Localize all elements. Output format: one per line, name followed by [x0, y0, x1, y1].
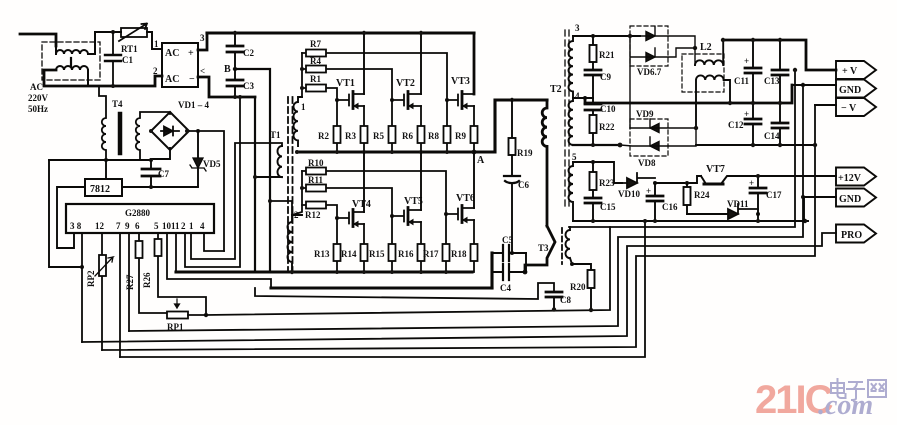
svg-text:R6: R6	[402, 131, 413, 141]
potentiometer RP1	[167, 299, 188, 332]
node VT3 gate	[445, 98, 449, 102]
mosfet VT4	[337, 199, 371, 227]
node B	[233, 67, 237, 71]
capacitor C7	[142, 160, 169, 186]
resistor R24	[684, 183, 710, 214]
svg-text:PRO: PRO	[841, 230, 862, 241]
rail pin9 long	[129, 85, 803, 331]
svg-text:4: 4	[575, 91, 580, 101]
svg-text:+: +	[188, 48, 194, 59]
svg-text:VT7: VT7	[706, 164, 725, 175]
wire pin12 down	[101, 233, 103, 350]
label pin4	[200, 66, 205, 76]
transformer T2 core dashed	[565, 30, 569, 208]
svg-text:R21: R21	[599, 50, 615, 60]
svg-text:6: 6	[135, 221, 140, 231]
svg-text:5: 5	[154, 221, 159, 231]
label T2 pin4	[575, 91, 580, 101]
mosfet VT5	[392, 196, 423, 225]
label T2 pin3	[575, 23, 580, 33]
rail +12 bottom	[573, 220, 808, 222]
svg-text:C4: C4	[500, 283, 511, 293]
node VD6 VD7 out	[693, 46, 697, 50]
diode VD10	[618, 173, 655, 199]
thermistor RT1	[119, 24, 147, 55]
svg-text:VT3: VT3	[451, 76, 470, 87]
svg-text:VD10: VD10	[618, 189, 640, 199]
svg-text:9: 9	[125, 221, 130, 231]
capacitor C17	[749, 176, 782, 221]
svg-text:AC: AC	[165, 48, 179, 59]
potentiometer RP2	[86, 255, 113, 287]
wire top line to RT1	[95, 31, 121, 33]
top bus B+	[207, 31, 474, 34]
output arrow -V	[836, 98, 876, 116]
svg-text:VD5: VD5	[203, 159, 221, 169]
svg-text:3 8: 3 8	[70, 221, 82, 231]
svg-text:R16: R16	[398, 249, 414, 259]
resistor R15	[369, 216, 396, 272]
nodes lower bus resistor feet	[335, 270, 448, 274]
mosfet VT1	[336, 78, 364, 109]
svg-text:R15: R15	[369, 249, 385, 259]
svg-text:R14: R14	[341, 249, 357, 259]
T4 primary winding	[99, 87, 106, 160]
svg-text:7812: 7812	[90, 184, 110, 195]
output arrow +V	[836, 61, 876, 79]
label A	[477, 155, 485, 166]
L2 winding bottom	[696, 75, 730, 128]
svg-text:GND: GND	[839, 194, 861, 205]
node R23 top	[591, 160, 595, 164]
transformer T3 secondary	[566, 227, 573, 264]
rail pin12 long	[102, 105, 815, 350]
node VT2 gate	[390, 98, 394, 102]
resistor R22	[590, 115, 615, 145]
nodes +12 bottom rail	[591, 219, 807, 223]
svg-text:2: 2	[181, 221, 186, 231]
svg-text:VT1: VT1	[336, 78, 355, 89]
svg-text:1: 1	[154, 39, 159, 49]
svg-text:C2: C2	[243, 48, 254, 58]
svg-text:C14: C14	[764, 131, 780, 141]
svg-text:VT4: VT4	[352, 199, 371, 210]
label AC 220V 50Hz	[28, 82, 49, 114]
resistor R19	[509, 100, 533, 176]
node VD9 out	[694, 126, 698, 130]
capacitor C2	[227, 33, 254, 69]
node GND sense	[801, 83, 805, 87]
resistor R13	[314, 218, 341, 272]
svg-text:R8: R8	[428, 131, 439, 141]
resistor R4	[302, 56, 392, 100]
transformer T1 core dashed	[288, 97, 293, 270]
svg-text:VD1 – 4: VD1 – 4	[178, 100, 209, 110]
wire rectifier pin4 to ground run	[198, 77, 255, 97]
resistor R8	[428, 100, 451, 152]
label VD8	[638, 158, 656, 168]
svg-text:<: <	[200, 66, 205, 76]
wire GND arrow lead	[792, 84, 836, 86]
wire pin9 down	[128, 233, 130, 331]
T2 winding pin4	[569, 98, 574, 145]
node RP1 right	[204, 313, 208, 317]
watermark 21IC	[755, 378, 873, 422]
node drive bottom riser	[253, 175, 257, 179]
resistor R2	[318, 100, 341, 152]
svg-text:+: +	[744, 56, 749, 66]
svg-text:+: +	[744, 109, 749, 119]
svg-text:R3: R3	[345, 131, 356, 141]
diode VD8	[620, 128, 696, 151]
svg-text:C1: C1	[122, 55, 133, 65]
rail C8 sense	[255, 283, 554, 299]
svg-text:A: A	[477, 155, 485, 166]
label pin2	[153, 66, 158, 76]
wire pin8 down	[81, 233, 83, 342]
capacitor C12	[728, 103, 761, 145]
svg-text:C6: C6	[518, 180, 529, 190]
svg-text:VD8: VD8	[638, 158, 656, 168]
bus lower mosfet rail thick	[271, 286, 492, 289]
output arrow GND	[836, 80, 876, 98]
svg-text:R2: R2	[318, 131, 329, 141]
label pin1	[154, 39, 159, 49]
node pin3 rail VD column	[628, 34, 632, 38]
node center tap	[583, 96, 587, 100]
svg-text:VD11: VD11	[727, 199, 749, 209]
node R22 bottom	[591, 143, 595, 147]
mosfet VT6	[446, 193, 475, 223]
transformer T1 label	[270, 130, 281, 140]
svg-text:+ V: + V	[842, 66, 858, 77]
svg-text:AC: AC	[30, 82, 43, 92]
svg-text:R19: R19	[517, 148, 533, 158]
rail minusV right	[696, 144, 815, 146]
node C6 bottom on C5 lead	[510, 251, 514, 255]
diode VD7	[630, 36, 695, 128]
resistor R9	[455, 106, 478, 152]
regulator 7812	[85, 179, 122, 196]
capacitor C16	[646, 183, 678, 221]
wire pin4 U-loop	[204, 233, 224, 251]
node VT5 gate	[390, 214, 394, 218]
wire bridge bottom to C7 node	[151, 148, 170, 159]
L2 winding top	[695, 40, 723, 65]
wire rectifier pin3 to top bus	[198, 33, 207, 50]
svg-text:VT6: VT6	[456, 193, 475, 204]
transformer T3 core dashed	[561, 228, 563, 264]
transformer T3 primary angle	[525, 226, 555, 272]
wire RT1 to rectifier pin1	[147, 32, 162, 49]
bus A thick	[297, 150, 474, 153]
resistor R12	[302, 202, 337, 221]
resistor R23	[590, 162, 615, 198]
svg-text:C7: C7	[158, 169, 169, 179]
mosfet VT3	[447, 76, 474, 109]
svg-text:R9: R9	[455, 131, 466, 141]
svg-text:GND: GND	[839, 85, 861, 96]
node pin2 riser top	[238, 95, 242, 99]
wire diodes to L2	[694, 48, 696, 65]
wire bus A to T2 primary	[474, 100, 547, 152]
rail GND mid	[585, 85, 792, 103]
svg-text:B: B	[224, 64, 231, 75]
wire bridge right to +12 unreg	[189, 131, 224, 251]
node VT1 gate	[335, 98, 339, 102]
node B riser tap	[268, 199, 272, 203]
nodes GND rail caps	[728, 101, 782, 147]
svg-text:220V: 220V	[28, 93, 49, 103]
transformer T4	[99, 87, 170, 160]
svg-text:R26: R26	[142, 272, 152, 288]
inductor L2 dashed box	[682, 54, 724, 92]
wire AC neutral input bottom	[44, 70, 162, 86]
wire 7812 input from rail	[105, 160, 107, 179]
node C8 bottom	[552, 307, 556, 311]
capacitor C11	[734, 40, 761, 103]
label T1 pin2	[294, 210, 299, 220]
node VD5 top	[196, 129, 200, 133]
node R24 top	[685, 181, 689, 185]
svg-text:+: +	[646, 186, 651, 196]
capacitor C15	[585, 198, 616, 221]
svg-text:C17: C17	[766, 190, 782, 200]
svg-text:R7: R7	[310, 39, 321, 49]
T4 secondary winding	[136, 112, 170, 160]
node R1 rail	[300, 86, 304, 90]
capacitor C8	[546, 292, 571, 310]
output arrow GND12	[836, 189, 876, 207]
transformer T2 label	[550, 84, 562, 95]
wire VD11 row	[687, 213, 727, 215]
gate ladder left rail top bank	[301, 53, 303, 97]
node C3 bottom	[233, 95, 237, 99]
rail RP1 sense long	[206, 70, 795, 315]
node C7 bottom	[149, 185, 153, 189]
T2 winding pin3	[569, 36, 574, 98]
svg-text:5: 5	[572, 152, 577, 162]
node A	[472, 150, 477, 155]
svg-text:VD6.7: VD6.7	[637, 67, 662, 77]
capacitor C3	[227, 69, 254, 97]
node R11 rail	[300, 186, 304, 190]
wire VT1 drain up	[363, 33, 365, 94]
svg-text:R11: R11	[308, 175, 324, 185]
svg-text:T4: T4	[112, 99, 123, 109]
svg-text:11: 11	[171, 221, 180, 231]
node +V sense	[793, 68, 797, 72]
node R20 bottom	[589, 308, 593, 312]
rectifier module U-AC box	[162, 43, 198, 87]
rail C7 bottom to regulator	[122, 186, 198, 188]
wire VT6 drain up	[473, 152, 475, 208]
svg-text:C16: C16	[662, 202, 678, 212]
svg-text:4: 4	[200, 221, 205, 231]
wire AC line input top	[20, 34, 56, 46]
svg-text:T2: T2	[550, 84, 562, 95]
resistor R21	[590, 36, 615, 70]
top bus caps	[723, 40, 836, 70]
node C1 bottom	[111, 84, 115, 88]
mosfet VT2	[392, 78, 421, 109]
wire pin4 drop to bus	[254, 97, 256, 272]
svg-text:C9: C9	[600, 72, 611, 82]
node VT2 drain bus	[419, 31, 423, 35]
svg-text:3: 3	[575, 23, 580, 33]
svg-text:1: 1	[189, 221, 194, 231]
resistor R17	[423, 214, 450, 272]
resistor R7	[302, 39, 447, 100]
svg-text:R4: R4	[310, 56, 321, 66]
watermark dianziwang glyphs	[831, 379, 886, 400]
node C16 top	[653, 181, 657, 185]
node -V rail riser	[813, 143, 817, 147]
node GND12 sense junction	[801, 195, 805, 199]
resistor R26	[142, 233, 206, 315]
svg-text:R24: R24	[694, 190, 710, 200]
svg-text:R5: R5	[373, 131, 384, 141]
node bridge left	[149, 129, 153, 133]
node T3 C4 junction	[523, 270, 528, 275]
svg-text:AC: AC	[165, 74, 179, 85]
wire C5C4 left riser thick	[490, 253, 493, 288]
svg-text:VD9: VD9	[636, 109, 654, 119]
svg-text:R12: R12	[305, 210, 321, 220]
wire -V arrow lead	[815, 104, 836, 106]
svg-text:RP2: RP2	[86, 270, 96, 287]
wire pin1 U-loop	[191, 143, 282, 259]
svg-text:T1: T1	[270, 130, 281, 140]
capacitor C14	[764, 103, 788, 145]
svg-text:L2: L2	[700, 42, 712, 53]
resistor R14	[341, 224, 368, 272]
svg-text:R23: R23	[599, 178, 615, 188]
node VT1 drain bus	[362, 31, 366, 35]
svg-text:C8: C8	[560, 295, 571, 305]
resistor R16	[398, 222, 425, 272]
resistor R11	[302, 175, 392, 216]
IC G2880	[66, 204, 214, 233]
transformer T3 label	[538, 243, 549, 253]
capacitor C13	[764, 40, 788, 103]
svg-text:+12V: +12V	[838, 173, 862, 184]
node C17 top	[756, 174, 760, 178]
capacitor C1	[105, 32, 133, 86]
wire pin11 to drive bus	[175, 233, 177, 272]
svg-text:C13: C13	[764, 76, 780, 86]
svg-text:R27: R27	[125, 274, 135, 290]
node VD8 rail junction	[618, 143, 623, 148]
wire VT4 drain up	[363, 152, 365, 212]
node T3 secondary bottom	[570, 262, 574, 266]
svg-text:12: 12	[95, 221, 105, 231]
svg-text:C11: C11	[734, 76, 750, 86]
label T2 pin5	[572, 152, 577, 162]
resistor R5	[373, 100, 396, 152]
svg-text:VT2: VT2	[396, 78, 415, 89]
svg-text:− V: − V	[841, 103, 857, 114]
svg-text:R20: R20	[570, 282, 586, 292]
resistor R10	[302, 158, 446, 214]
bus drive return thick	[176, 270, 472, 273]
node T4 to rail	[104, 158, 108, 162]
label T1 pin1	[301, 102, 306, 112]
wire pin10 staircase	[167, 233, 271, 288]
diode pair VD6 VD7 dashed box	[630, 26, 668, 66]
transformer T2 primary winding	[542, 100, 547, 226]
resistor R1	[302, 74, 337, 100]
wire VT5 drain up	[420, 152, 422, 210]
line filter choke winding top	[56, 32, 95, 54]
rail pin7 long	[120, 221, 645, 357]
node rail x106	[149, 158, 153, 162]
label pin3	[200, 33, 205, 43]
T1 winding pin2	[288, 215, 302, 272]
resistor R3	[345, 106, 368, 152]
wire pin2 U-loop	[185, 97, 240, 267]
svg-text:G2880: G2880	[125, 208, 151, 218]
T4 core	[118, 114, 123, 153]
nodes top bus	[721, 38, 782, 42]
capacitor C4	[492, 253, 526, 293]
wire C16 to R24	[655, 176, 701, 183]
bridge rectifier VD1-4	[151, 100, 209, 150]
svg-text:1: 1	[301, 102, 306, 112]
diode VD9	[630, 119, 696, 133]
svg-text:R1: R1	[310, 74, 321, 84]
T1 winding pin1	[293, 97, 302, 146]
resistor R27	[125, 233, 167, 313]
wire RP1 right lead	[188, 314, 206, 316]
capacitor C6	[504, 176, 529, 253]
label VD9	[636, 109, 654, 119]
zener VD5	[190, 131, 221, 186]
resistor R20	[570, 264, 595, 310]
node C1 top	[111, 30, 115, 34]
gate ladder left rail bottom bank	[292, 171, 302, 215]
node VT4 gate	[335, 216, 339, 220]
node T1 pin2 bottom	[290, 270, 294, 274]
diode VD6	[630, 27, 695, 48]
rail minusV left	[573, 144, 620, 146]
svg-text:2: 2	[153, 66, 158, 76]
wire 7812 left to chip pin3	[57, 187, 85, 248]
resistor R18	[451, 220, 478, 272]
label VD6 7	[637, 67, 662, 77]
capacitor C9	[585, 70, 611, 98]
svg-text:−: −	[189, 74, 195, 85]
rail pin8 long	[82, 233, 836, 342]
line filter dashed box	[42, 42, 100, 80]
svg-text:R13: R13	[314, 249, 330, 259]
diode VD11	[727, 199, 758, 219]
svg-text:50Hz: 50Hz	[28, 104, 48, 114]
output arrow PRO	[836, 225, 876, 243]
T1 drive winding	[255, 146, 282, 177]
svg-text:R10: R10	[308, 158, 324, 168]
node R21 top	[591, 34, 595, 38]
svg-text:7: 7	[116, 221, 121, 231]
node C17 bottom	[756, 212, 760, 216]
svg-text:C12: C12	[728, 120, 744, 130]
svg-text:+: +	[749, 178, 754, 188]
wire VT3 drain up	[473, 33, 476, 94]
line filter choke winding bottom	[56, 66, 88, 86]
wire rail left drop	[49, 160, 82, 267]
svg-text:C5: C5	[502, 235, 513, 245]
node R4 rail	[300, 67, 304, 71]
